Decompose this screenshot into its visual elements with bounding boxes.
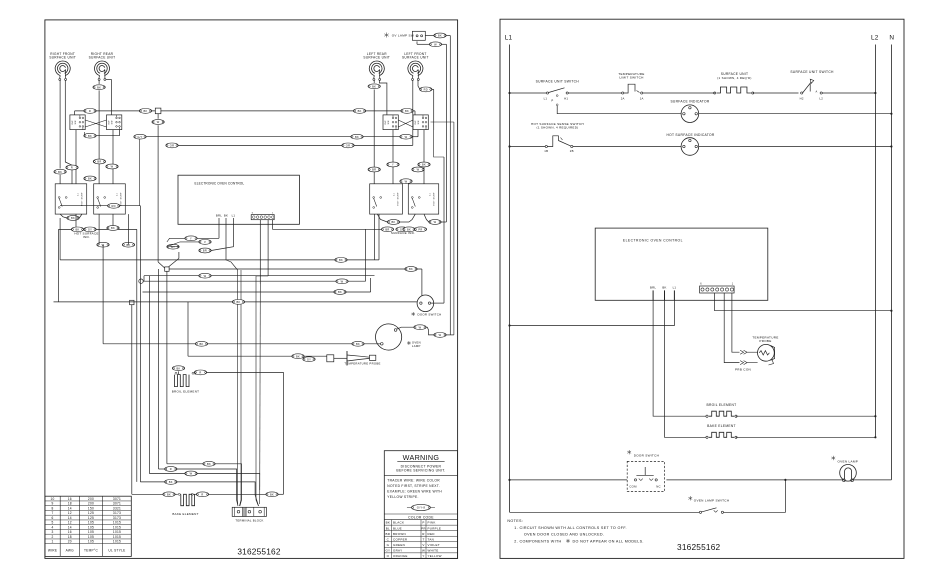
svg-text:W: W (434, 42, 437, 46)
svg-text:COLOR CODE: COLOR CODE (408, 515, 434, 519)
svg-text:PRB CON: PRB CON (735, 367, 751, 371)
svg-text:W: W (190, 472, 193, 476)
svg-text:SW: SW (75, 120, 77, 125)
svg-text:18: 18 (68, 502, 72, 506)
svg-text:BROIL ELEMENT: BROIL ELEMENT (172, 390, 200, 394)
svg-text:10: 10 (50, 497, 54, 501)
svg-text:316255162: 316255162 (237, 547, 281, 557)
svg-text:125: 125 (88, 511, 94, 515)
svg-text:BEFORE SERVICING UNIT.: BEFORE SERVICING UNIT. (396, 469, 445, 473)
svg-text:N: N (889, 34, 894, 41)
svg-text:AWG: AWG (66, 548, 75, 552)
svg-text:BK: BK (409, 267, 413, 271)
svg-text:YELLOW: YELLOW (428, 554, 442, 558)
svg-text:BRL: BRL (650, 286, 656, 290)
svg-text:TEMPERATURE PROBE: TEMPERATURE PROBE (344, 362, 380, 366)
svg-text:PR: PR (421, 526, 426, 530)
svg-text:BK: BK (438, 34, 442, 38)
svg-text:BR: BR (372, 168, 376, 172)
svg-text:P: P (551, 98, 553, 102)
svg-text:BLUE: BLUE (393, 526, 402, 530)
svg-text:12: 12 (68, 521, 72, 525)
svg-text:OVEN LAMP SWITCH: OVEN LAMP SWITCH (694, 499, 730, 503)
svg-text:BK: BK (75, 228, 79, 232)
svg-text:BK: BK (356, 342, 360, 346)
svg-text:W: W (417, 168, 420, 172)
svg-text:Y: Y (190, 236, 192, 240)
svg-text:TRACER WIRE: WIRE COLOR: TRACER WIRE: WIRE COLOR (387, 479, 440, 483)
svg-text:12: 12 (68, 511, 72, 515)
svg-text:OVEN LAMP: OVEN LAMP (838, 459, 859, 463)
svg-text:W: W (405, 179, 408, 183)
svg-text:PR: PR (418, 227, 422, 231)
svg-text:BK: BK (58, 170, 62, 174)
svg-text:INF: INF (385, 120, 387, 125)
svg-text:BR: BR (203, 249, 207, 253)
svg-text:3173: 3173 (113, 516, 121, 520)
svg-text:L1: L1 (544, 96, 548, 100)
svg-text:150: 150 (88, 506, 94, 510)
svg-text:14: 14 (68, 506, 72, 510)
svg-text:O: O (387, 554, 390, 558)
svg-text:BK: BK (167, 492, 171, 496)
svg-text:SURFACE UNIT SWITCH: SURFACE UNIT SWITCH (790, 70, 834, 74)
svg-text:(1 SHOWN, 4 REQ'D): (1 SHOWN, 4 REQ'D) (717, 76, 751, 80)
svg-text:RED: RED (428, 532, 436, 536)
svg-text:1: 1 (52, 540, 54, 544)
svg-text:SURFACE INDICATOR: SURFACE INDICATOR (670, 99, 709, 103)
svg-text:WARNING: WARNING (403, 453, 440, 462)
svg-text:1A: 1A (640, 96, 644, 100)
svg-text:PURPLE: PURPLE (428, 526, 442, 530)
svg-text:WHITE: WHITE (428, 548, 439, 552)
svg-text:20: 20 (68, 540, 72, 544)
svg-text:V: V (204, 240, 206, 244)
svg-text:Y: Y (392, 163, 394, 167)
svg-text:BK: BK (71, 216, 75, 220)
svg-text:BK: BK (296, 354, 300, 358)
svg-text:200: 200 (88, 497, 94, 501)
svg-text:W: W (204, 274, 207, 278)
svg-text:H2: H2 (800, 96, 804, 100)
svg-text:BK: BK (176, 366, 180, 370)
svg-text:INF: INF (109, 120, 111, 125)
svg-text:R: R (89, 109, 91, 113)
svg-text:SW: SW (388, 120, 390, 125)
svg-text:RD: RD (112, 204, 116, 208)
svg-text:BK: BK (405, 109, 409, 113)
svg-text:BROIL ELEMENT: BROIL ELEMENT (707, 403, 737, 407)
svg-text:HOT SURF: HOT SURF (120, 192, 122, 206)
svg-text:14: 14 (68, 516, 72, 520)
svg-text:ELECTRONIC OVEN CONTROL: ELECTRONIC OVEN CONTROL (623, 239, 683, 243)
svg-text:ORANGE: ORANGE (393, 554, 408, 558)
svg-text:BK: BK (143, 109, 147, 113)
svg-text:(1 SHOWN, 4 REQUIRED): (1 SHOWN, 4 REQUIRED) (537, 126, 579, 130)
svg-text:BK: BK (386, 521, 391, 525)
svg-text:TAN: TAN (428, 537, 435, 541)
svg-text:GREEN: GREEN (393, 543, 405, 547)
svg-text:NC: NC (656, 485, 661, 489)
svg-text:HOT SURF: HOT SURF (397, 192, 399, 206)
svg-text:6: 6 (52, 516, 54, 520)
svg-text:SW: SW (418, 120, 420, 125)
svg-text:HOT SURFACE INDICATOR: HOT SURFACE INDICATOR (666, 133, 714, 137)
svg-text:GY: GY (307, 357, 311, 361)
svg-text:Y: Y (422, 554, 424, 558)
svg-text:W: W (111, 165, 114, 169)
svg-text:200: 200 (88, 502, 94, 506)
svg-text:HOT SURF: HOT SURF (82, 192, 84, 206)
svg-text:W: W (434, 220, 437, 224)
svg-text:DOOR SWITCH: DOOR SWITCH (418, 313, 442, 317)
svg-text:P: P (422, 521, 424, 525)
svg-text:G/Y: G/Y (137, 135, 142, 139)
svg-text:18: 18 (68, 535, 72, 539)
svg-text:ELECTRONIC OVEN CONTROL: ELECTRONIC OVEN CONTROL (195, 182, 245, 186)
svg-text:L1: L1 (505, 34, 513, 41)
svg-text:3173: 3173 (113, 511, 121, 515)
svg-text:L2: L2 (819, 96, 823, 100)
svg-text:LIMIT SWITCH: LIMIT SWITCH (619, 76, 643, 80)
svg-text:SW: SW (112, 120, 114, 125)
svg-text:BROWN: BROWN (393, 532, 406, 536)
svg-text:1015: 1015 (113, 530, 121, 534)
svg-text:OVEN DOOR CLOSED AND UNLOCKED.: OVEN DOOR CLOSED AND UNLOCKED. (524, 533, 604, 537)
svg-text:UL STYLE: UL STYLE (108, 548, 125, 552)
svg-text:BAKE ELEMENT: BAKE ELEMENT (172, 512, 198, 516)
svg-text:SURFACE UNIT: SURFACE UNIT (363, 56, 390, 60)
svg-text:BR: BR (386, 532, 391, 536)
svg-text:W: W (341, 279, 344, 283)
svg-text:A: A (815, 90, 817, 94)
svg-text:G/Y-8: G/Y-8 (417, 506, 426, 510)
svg-text:GRAY: GRAY (393, 548, 402, 552)
svg-text:BAKE ELEMENT: BAKE ELEMENT (707, 424, 736, 428)
svg-text:105: 105 (88, 540, 94, 544)
svg-text:5: 5 (52, 521, 54, 525)
svg-text:BK: BK (355, 135, 359, 139)
svg-text:DO NOT APPEAR ON ALL MODELS.: DO NOT APPEAR ON ALL MODELS. (573, 540, 644, 544)
svg-text:SURFACE UNIT: SURFACE UNIT (49, 56, 76, 60)
svg-text:BK: BK (391, 220, 395, 224)
svg-text:WIRE: WIRE (48, 548, 57, 552)
svg-text:105: 105 (88, 530, 94, 534)
svg-text:INF: INF (72, 120, 74, 125)
svg-text:1015: 1015 (113, 525, 121, 529)
svg-text:16: 16 (68, 530, 72, 534)
svg-text:PROBE: PROBE (759, 339, 771, 343)
svg-text:1015: 1015 (113, 540, 121, 544)
svg-text:BK: BK (207, 462, 211, 466)
svg-text:2: 2 (52, 535, 54, 539)
svg-text:COPPER: COPPER (393, 537, 408, 541)
svg-text:BK: BK (339, 258, 343, 262)
svg-text:W: W (157, 120, 160, 124)
svg-text:TEMP°C: TEMP°C (84, 548, 99, 552)
svg-text:EXAMPLE: GREEN WIRE WITH: EXAMPLE: GREEN WIRE WITH (387, 490, 442, 494)
svg-text:105: 105 (88, 535, 94, 539)
svg-text:H1: H1 (564, 96, 568, 100)
svg-text:V: V (422, 543, 424, 547)
svg-text:3071: 3071 (113, 502, 121, 506)
svg-text:YELLOW STRIPE.: YELLOW STRIPE. (387, 495, 418, 499)
svg-text:W: W (422, 548, 425, 552)
svg-text:105: 105 (88, 525, 94, 529)
svg-text:L2: L2 (871, 34, 879, 41)
svg-text:OR: OR (346, 144, 350, 148)
svg-text:TERMINAL BLOCK: TERMINAL BLOCK (235, 518, 263, 522)
svg-text:BK: BK (111, 226, 115, 230)
svg-text:T: T (422, 537, 424, 541)
svg-text:LAMP: LAMP (412, 344, 421, 348)
svg-text:BK: BK (338, 290, 342, 294)
svg-text:HOT SURF: HOT SURF (434, 192, 436, 206)
svg-text:BK: BK (88, 134, 92, 138)
svg-text:BK: BK (372, 84, 376, 88)
svg-text:BK: BK (358, 109, 362, 113)
svg-text:COM: COM (629, 485, 637, 489)
svg-text:3071: 3071 (113, 497, 121, 501)
svg-text:OR: OR (170, 144, 174, 148)
svg-text:BK: BK (270, 492, 274, 496)
svg-text:W: W (405, 135, 408, 139)
svg-text:GY: GY (88, 228, 92, 232)
svg-text:NOTED FIRST, STRIPE NEXT.: NOTED FIRST, STRIPE NEXT. (387, 484, 440, 488)
svg-text:BK: BK (224, 214, 228, 218)
svg-text:1015: 1015 (113, 521, 121, 525)
svg-text:BK: BK (199, 342, 203, 346)
svg-text:7: 7 (52, 511, 54, 515)
svg-text:316255162: 316255162 (677, 542, 721, 552)
svg-text:RD: RD (424, 88, 428, 92)
svg-text:BLACK: BLACK (393, 521, 404, 525)
svg-text:2. COMPONENTS WITH: 2. COMPONENTS WITH (514, 540, 561, 544)
svg-text:8: 8 (52, 506, 54, 510)
svg-text:14: 14 (68, 525, 72, 529)
svg-text:IND.: IND. (83, 235, 90, 239)
svg-text:1. CIRCUIT SHOWN WITH ALL CON: 1. CIRCUIT SHOWN WITH ALL CONTROLS SET T… (514, 526, 627, 530)
svg-text:BK: BK (236, 300, 240, 304)
svg-text:SURFACE UNIT SWITCH: SURFACE UNIT SWITCH (536, 80, 580, 84)
svg-text:BK: BK (407, 227, 411, 231)
svg-text:OV LAMP SW: OV LAMP SW (392, 34, 414, 38)
svg-text:R: R (201, 492, 203, 496)
svg-text:1B: 1B (544, 149, 548, 153)
svg-text:3: 3 (52, 530, 54, 534)
svg-text:DOOR SWITCH: DOOR SWITCH (634, 453, 659, 457)
svg-text:BR: BR (97, 160, 101, 164)
svg-text:105: 105 (88, 521, 94, 525)
svg-text:3321: 3321 (113, 506, 121, 510)
svg-text:1015: 1015 (113, 535, 121, 539)
svg-text:2A: 2A (621, 96, 625, 100)
svg-text:BK: BK (88, 177, 92, 181)
svg-text:R: R (71, 166, 73, 170)
svg-text:L1: L1 (232, 214, 236, 218)
svg-text:BK: BK (169, 480, 173, 484)
svg-text:R: R (170, 467, 172, 471)
svg-text:BK: BK (662, 286, 666, 290)
svg-text:4: 4 (52, 525, 54, 529)
svg-text:VIOLET: VIOLET (428, 543, 440, 547)
svg-text:BRL: BRL (216, 214, 222, 218)
svg-text:PINK: PINK (428, 521, 436, 525)
svg-text:SURFACE UNIT: SURFACE UNIT (89, 56, 116, 60)
svg-text:NOTES:: NOTES: (507, 519, 523, 523)
svg-text:125: 125 (88, 516, 94, 520)
svg-text:GY: GY (385, 548, 390, 552)
svg-text:L1: L1 (673, 286, 677, 290)
svg-text:BL: BL (386, 526, 390, 530)
svg-text:W: W (419, 325, 422, 329)
svg-text:G: G (387, 543, 390, 547)
svg-text:R: R (199, 371, 201, 375)
svg-text:16: 16 (68, 497, 72, 501)
svg-text:BK: BK (97, 85, 101, 89)
svg-text:BR: BR (385, 227, 389, 231)
svg-text:SURFACE UNIT: SURFACE UNIT (402, 56, 429, 60)
svg-text:9: 9 (52, 502, 54, 506)
svg-text:INF: INF (415, 120, 417, 125)
svg-text:W: W (439, 333, 442, 337)
svg-text:BK: BK (422, 163, 426, 167)
svg-text:2B: 2B (570, 149, 574, 153)
